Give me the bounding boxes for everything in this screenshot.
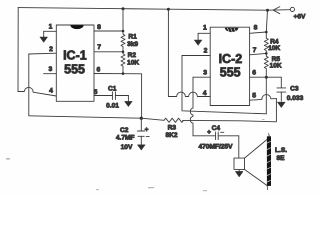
svg-text:L.S.: L.S.	[275, 147, 287, 154]
svg-text:R1: R1	[128, 34, 137, 41]
svg-text:C2: C2	[120, 127, 129, 134]
pin 7 IC-1	[94, 51, 123, 53]
pin 3 IC-1 stub	[44, 73, 57, 75]
ground below C2	[138, 145, 146, 150]
resistor R5	[264, 53, 268, 77]
loudspeaker LS	[234, 134, 287, 190]
svg-text:7: 7	[253, 47, 257, 54]
svg-text:10K: 10K	[127, 60, 139, 67]
svg-text:10V: 10V	[121, 144, 133, 151]
svg-text:6: 6	[97, 66, 101, 73]
wire bottom rail to IC-2 pin 5 riser	[183, 99, 277, 122]
svg-text:8: 8	[254, 25, 258, 32]
pin 8 IC-1	[94, 30, 123, 32]
svg-text:2: 2	[49, 46, 53, 53]
svg-text:4: 4	[203, 90, 207, 97]
svg-text:10K: 10K	[268, 45, 280, 52]
IC-1 box U1	[56, 25, 94, 101]
wire IC-1 pin6 to C2 node	[141, 74, 143, 118]
pin 6 IC-2	[250, 76, 282, 78]
+6V supply terminal	[268, 7, 307, 21]
svg-text:IC-1: IC-1	[63, 49, 87, 63]
svg-text:3k9: 3k9	[127, 41, 138, 48]
svg-text:3: 3	[49, 66, 53, 73]
capacitor C1	[106, 86, 128, 110]
svg-text:4: 4	[49, 88, 53, 95]
node R4 junctions	[265, 31, 268, 34]
svg-text:1: 1	[203, 25, 207, 32]
pin 5 IC-2 wire with hop over R5 vertical	[250, 95, 277, 101]
capacitor C2 electrolytic	[116, 118, 149, 151]
svg-text:0.01: 0.01	[106, 103, 119, 110]
pin 4 IC-2 wire from top rail with hops	[168, 9, 210, 96]
scan speckles	[6, 119, 265, 191]
svg-text:555: 555	[64, 63, 85, 77]
svg-text:1: 1	[49, 23, 53, 30]
pin 5 IC-1	[94, 95, 113, 97]
svg-text:+: +	[145, 127, 149, 134]
svg-text:5: 5	[94, 89, 98, 96]
wire left border	[17, 8, 19, 92]
svg-text:IC-2: IC-2	[219, 52, 243, 66]
wire R5 junction down to pin2 tie line	[265, 77, 267, 114]
svg-text:8: 8	[97, 24, 101, 31]
pin 4 IC-1 wire from left border with hop over pin2 wire	[18, 87, 56, 96]
pin 8 IC-2	[250, 32, 267, 33]
svg-text:8E: 8E	[276, 155, 285, 162]
pin 2 IC-1	[29, 52, 57, 55]
ground at IC-2 pin 1	[194, 33, 202, 45]
ground below C3	[278, 102, 286, 107]
svg-text:3: 3	[203, 69, 207, 76]
svg-text:8K2: 8K2	[165, 132, 177, 139]
node R5/C3 junction	[265, 76, 268, 79]
pin 1 IC-2	[198, 32, 210, 34]
ground at IC-1 pin 1	[40, 31, 48, 42]
wire pin2 IC-2 down and right tie line	[182, 56, 266, 114]
capacitor C4 electrolytic	[193, 125, 239, 151]
resistor R1	[121, 9, 125, 52]
IC-2 box U2	[210, 27, 249, 105]
pin 2 IC-2	[182, 55, 210, 57]
svg-text:C3: C3	[290, 85, 299, 92]
svg-text:R2: R2	[128, 52, 137, 59]
node C2 junction	[140, 117, 143, 120]
svg-text:R3: R3	[168, 125, 177, 132]
svg-text:0.033: 0.033	[287, 95, 304, 102]
svg-text:470MF/25V: 470MF/25V	[198, 144, 233, 151]
svg-text:2: 2	[204, 48, 208, 55]
node R1/pin8, R2 junctions	[122, 30, 125, 33]
svg-text:C4: C4	[212, 125, 221, 132]
svg-text:7: 7	[97, 44, 101, 51]
wire C4 to loudspeaker	[238, 136, 240, 158]
wire bottom from pin2 vertical to R3	[29, 116, 164, 121]
svg-text:C1: C1	[108, 86, 117, 93]
ground below loudspeaker	[235, 169, 243, 176]
pin 6 IC-1	[94, 73, 142, 75]
resistor R3	[164, 118, 184, 122]
resistor R2	[121, 52, 125, 74]
wire pin2 down-left vertical	[28, 54, 30, 116]
svg-text:10K: 10K	[270, 62, 282, 69]
svg-text:6: 6	[252, 70, 256, 77]
svg-text:+6V: +6V	[294, 14, 307, 21]
pin 1 IC-1	[44, 30, 57, 32]
ground after C1	[125, 96, 132, 107]
pin 3 IC-2	[193, 76, 210, 78]
node top rail junctions	[122, 7, 125, 10]
wire pin3 IC-2 down with hops over two horizontals	[190, 77, 193, 136]
pin 7 IC-2	[250, 53, 267, 54]
svg-text:4.7MF: 4.7MF	[116, 135, 135, 142]
svg-text:5: 5	[252, 93, 256, 100]
capacitor C3	[277, 78, 304, 103]
svg-text:+: +	[207, 129, 211, 136]
wire top +6V rail	[18, 8, 267, 11]
resistor R4	[264, 32, 268, 53]
svg-text:555: 555	[220, 65, 241, 79]
